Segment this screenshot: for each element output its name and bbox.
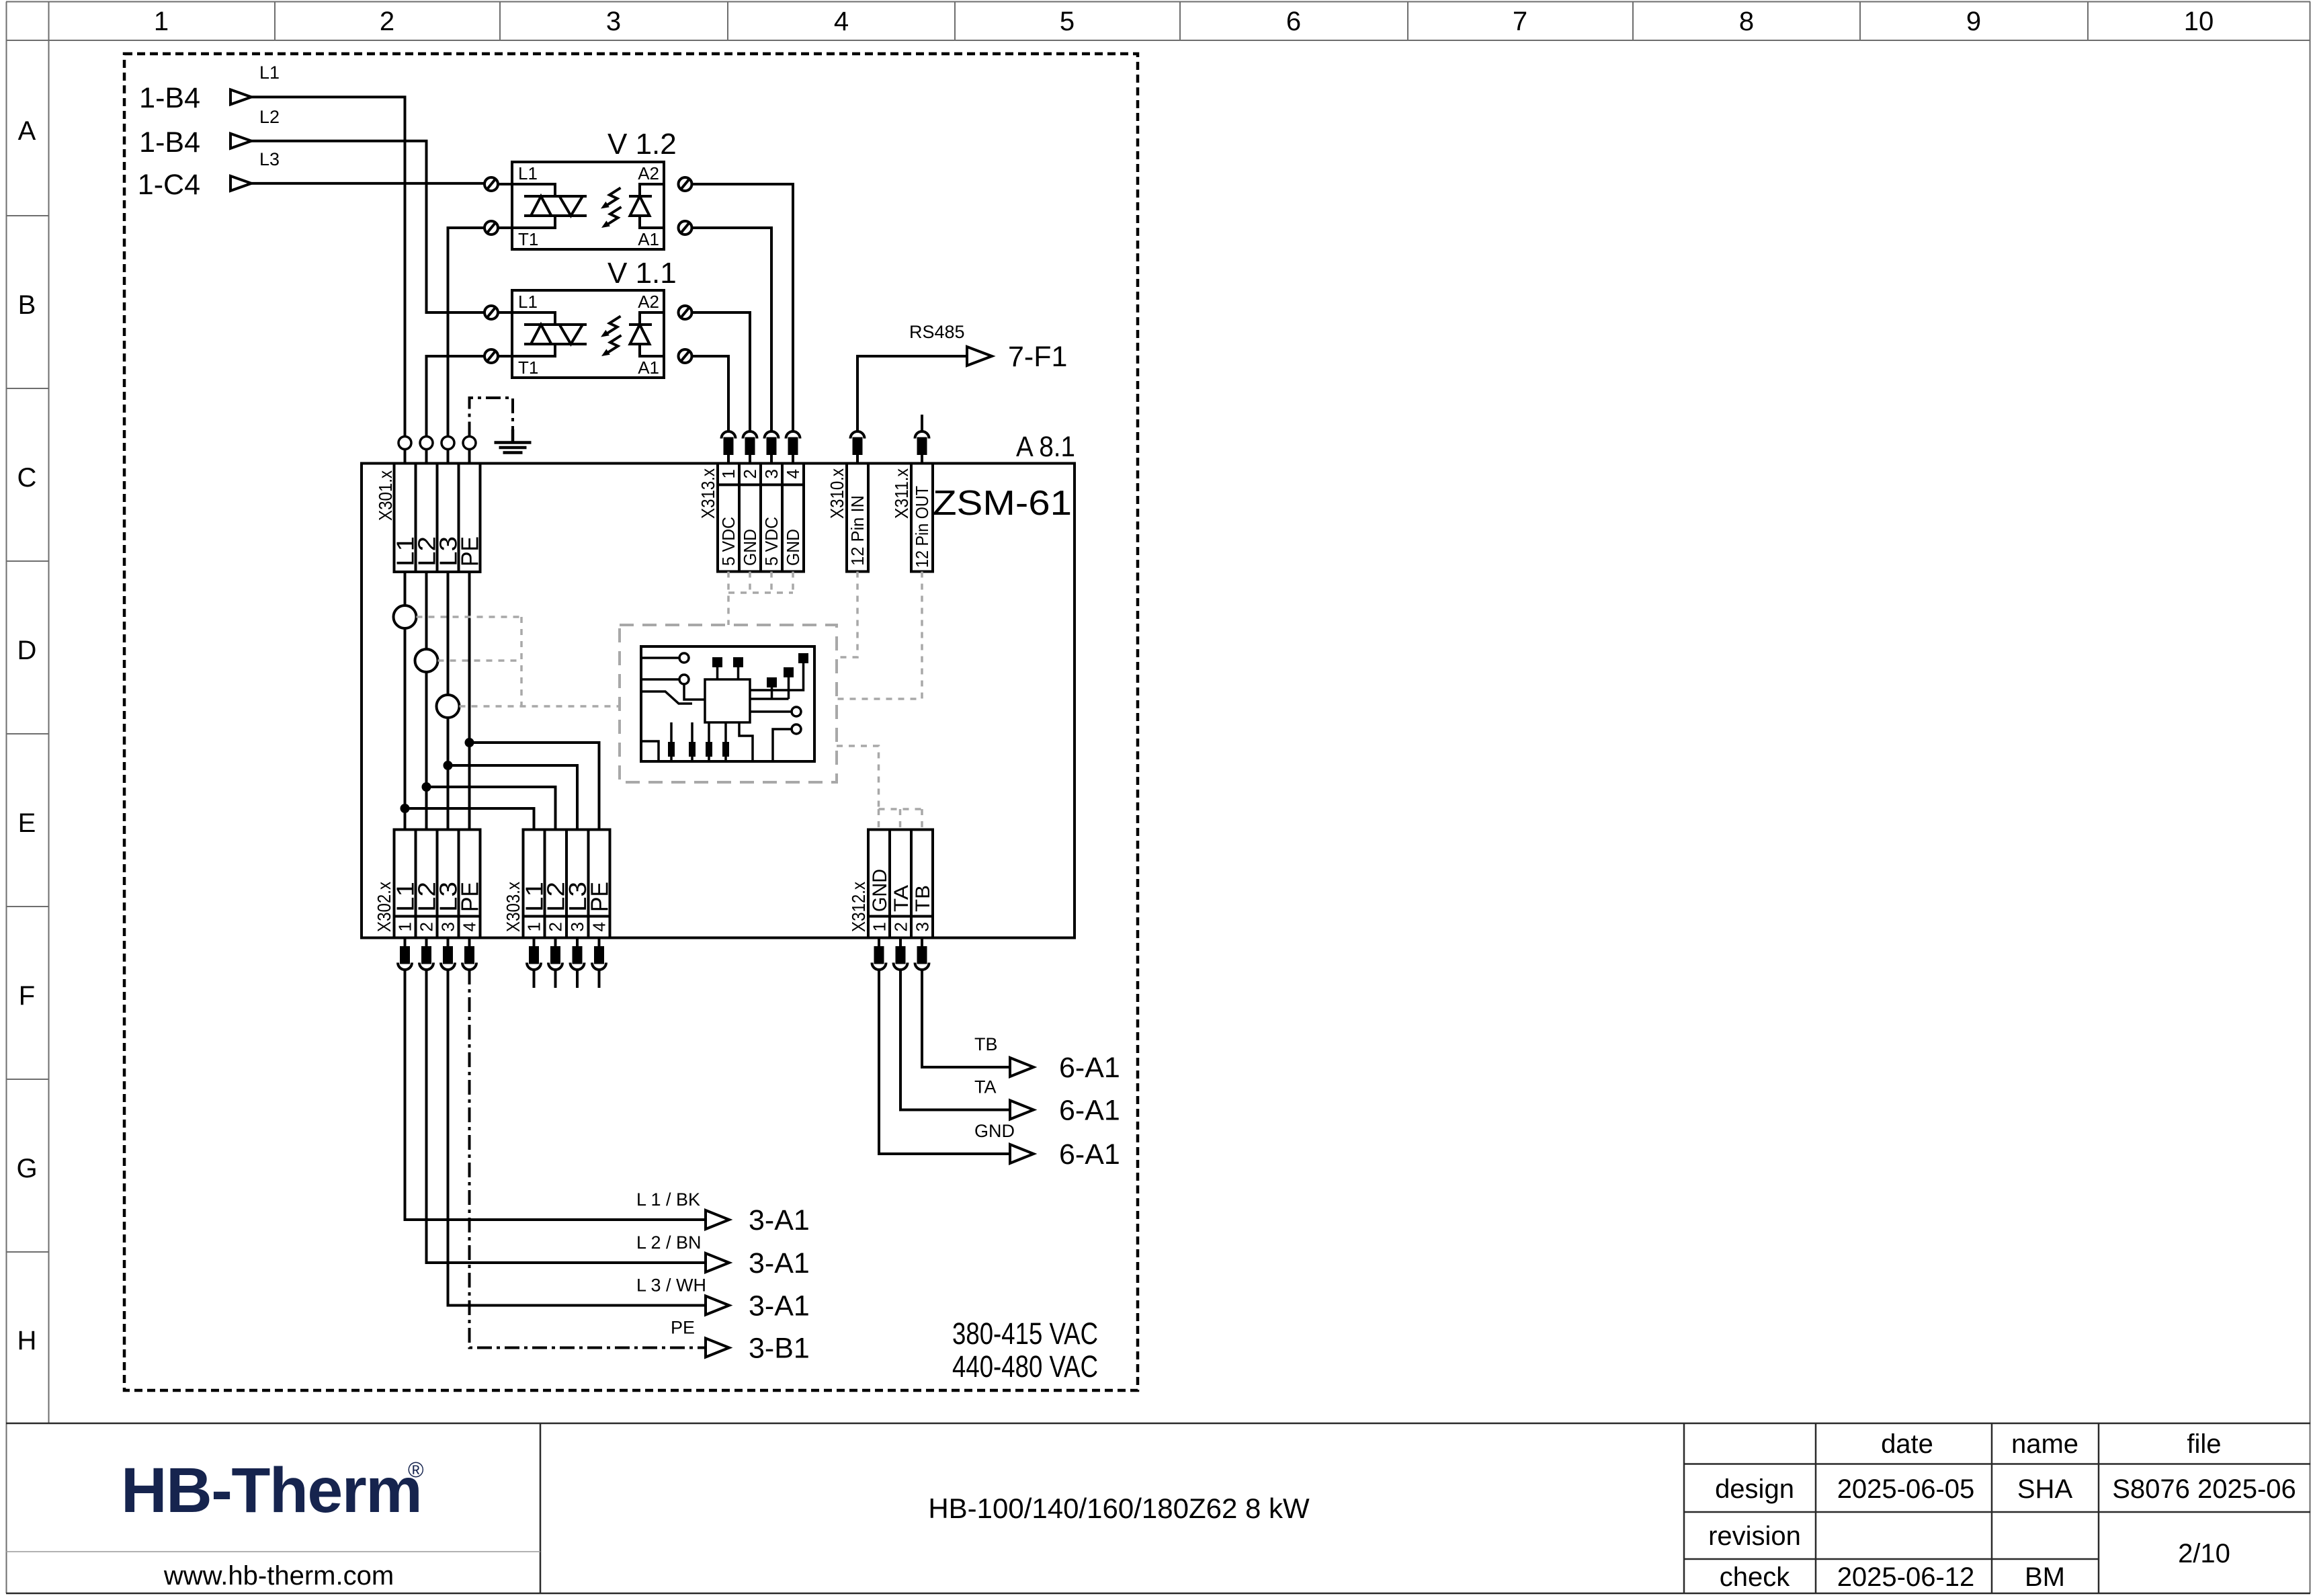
- plug-socket contact above X311 with stub wire: [915, 415, 929, 464]
- wire X312:3 TB to 6-A1: [922, 970, 1010, 1067]
- svg-text:X301.x: X301.x: [375, 470, 396, 521]
- svg-text:A1: A1: [638, 358, 659, 378]
- svg-text:6-A1: 6-A1: [1059, 1052, 1120, 1084]
- svg-text:440-480 VAC: 440-480 VAC: [952, 1349, 1098, 1384]
- svg-text:V 1.1: V 1.1: [607, 257, 677, 290]
- svg-text:4: 4: [783, 469, 803, 478]
- svg-text:1-C4: 1-C4: [138, 169, 200, 201]
- svg-text:design: design: [1715, 1474, 1794, 1504]
- arrow 3-A1 L3: [636, 1275, 810, 1322]
- wire phase L2 from 1-B4 to V1.1 L1: [251, 141, 485, 312]
- plug-socket contacts below X312 pins 1-3: [872, 938, 929, 970]
- terminal strip X301.x: [394, 464, 480, 573]
- svg-text:E: E: [18, 808, 36, 838]
- svg-text:2: 2: [417, 922, 437, 931]
- wire V1.2 A1 to X313:3: [692, 228, 771, 431]
- svg-text:GND: GND: [740, 529, 760, 566]
- svg-text:PE: PE: [586, 882, 614, 912]
- svg-text:H: H: [17, 1326, 37, 1355]
- V1.1 triac element: [498, 312, 587, 356]
- svg-text:date: date: [1881, 1429, 1933, 1459]
- svg-text:ZSM-61: ZSM-61: [933, 484, 1072, 523]
- wire phase L1 from 1-B4 to X301:1: [251, 97, 405, 463]
- wire X312:2 TA to 6-A1: [900, 970, 1010, 1110]
- svg-text:S8076 2025-06: S8076 2025-06: [2112, 1474, 2296, 1504]
- current sensor ring on L3: [437, 695, 460, 718]
- arrow 6-A1 GND: [974, 1121, 1120, 1171]
- terminal X311.x 12 Pin OUT: [891, 464, 933, 572]
- svg-text:X311.x: X311.x: [891, 468, 912, 519]
- svg-text:10: 10: [2184, 7, 2214, 36]
- svg-text:6: 6: [1286, 7, 1301, 36]
- svg-text:A2: A2: [638, 292, 659, 312]
- V1.2 photo light arrows: [601, 188, 622, 228]
- terminal strip X303.x: [523, 830, 610, 938]
- V1.2 triac element: [498, 184, 587, 228]
- schematic boundary (dashed): [124, 54, 1138, 1390]
- svg-text:A2: A2: [638, 163, 659, 183]
- arrow 6-A1 TA: [974, 1077, 1120, 1127]
- svg-text:T1: T1: [518, 358, 538, 378]
- node circles at X301 inputs: [398, 437, 476, 450]
- wire L1 inside module X301:1 to X302:1: [404, 572, 407, 830]
- svg-text:3-A1: 3-A1: [749, 1247, 810, 1279]
- internal link X310 to PCB (grey dashed): [837, 572, 857, 658]
- svg-text:T1: T1: [518, 229, 538, 249]
- source arrow 1-C4 phase L3: [138, 149, 280, 201]
- V1.2 screw terminals: [485, 177, 692, 235]
- svg-text:TA: TA: [974, 1077, 997, 1097]
- wire stub X301:4 PE: [468, 450, 471, 464]
- plug-socket contacts below X303 pins 1-4 with stub wires: [527, 938, 606, 989]
- svg-text:X312.x: X312.x: [848, 882, 869, 932]
- terminal strip X302.x: [394, 830, 480, 938]
- internal link PCB to X312 (grey dashed): [837, 746, 922, 830]
- current sensor ring on L1: [394, 605, 417, 628]
- svg-text:5 VDC: 5 VDC: [718, 517, 739, 566]
- wire X302:2 to 3-A1 L2/BN: [427, 970, 706, 1263]
- svg-text:www.hb-therm.com: www.hb-therm.com: [163, 1561, 394, 1591]
- wire V1.2 A2 to X313:4: [692, 184, 793, 431]
- svg-text:12 Pin IN: 12 Pin IN: [847, 495, 868, 566]
- svg-text:5 VDC: 5 VDC: [761, 517, 782, 566]
- svg-text:3: 3: [567, 922, 587, 931]
- svg-text:3: 3: [438, 922, 458, 931]
- supply voltage note: [952, 1316, 1098, 1384]
- svg-text:BM: BM: [2025, 1562, 2065, 1592]
- wire L2 inside module X301:2 to X302:2: [425, 572, 428, 830]
- svg-text:TB: TB: [912, 885, 934, 912]
- terminal X310.x 12 Pin IN: [827, 464, 868, 572]
- svg-text:3-A1: 3-A1: [749, 1290, 810, 1322]
- svg-text:®: ®: [408, 1458, 424, 1482]
- svg-text:RS485: RS485: [909, 322, 965, 342]
- svg-text:L1: L1: [518, 292, 538, 312]
- svg-text:F: F: [19, 981, 35, 1011]
- svg-text:GND: GND: [783, 529, 803, 566]
- HB-Therm logo: [121, 1455, 424, 1591]
- wire V1.1 A1 to X313:1: [692, 356, 728, 431]
- internal link X311 to PCB (grey dashed): [837, 572, 922, 700]
- junction L1 to X303:1: [401, 804, 534, 830]
- svg-text:L 1 / BK: L 1 / BK: [636, 1189, 700, 1210]
- svg-text:file: file: [2187, 1429, 2221, 1459]
- svg-text:L 2 / BN: L 2 / BN: [636, 1232, 702, 1253]
- svg-text:1: 1: [524, 922, 544, 931]
- svg-text:1: 1: [718, 469, 739, 478]
- wire PE inside module X301:4 to X302:4: [468, 572, 471, 830]
- svg-text:5: 5: [1060, 7, 1075, 36]
- svg-text:3: 3: [761, 469, 782, 478]
- svg-text:8: 8: [1739, 7, 1754, 36]
- svg-text:L3: L3: [259, 149, 280, 169]
- svg-text:V 1.2: V 1.2: [607, 128, 677, 161]
- svg-text:PE: PE: [671, 1318, 695, 1338]
- svg-text:G: G: [16, 1154, 37, 1183]
- TITLE BLOCK: [6, 1423, 2310, 1593]
- svg-text:3-B1: 3-B1: [749, 1333, 810, 1365]
- svg-text:1-B4: 1-B4: [139, 126, 200, 159]
- current sensor ring on L2: [415, 649, 438, 672]
- junction PE to X303:4: [465, 738, 599, 830]
- wire phase L3 from 1-C4 to V1.2 L1: [251, 182, 485, 185]
- svg-text:D: D: [17, 636, 37, 665]
- svg-text:2: 2: [891, 922, 911, 931]
- PCB circuit board graphic: [641, 646, 814, 761]
- svg-text:PE: PE: [456, 882, 484, 912]
- svg-text:name: name: [2011, 1429, 2078, 1459]
- svg-text:HB-100/140/160/180Z62 8 kW: HB-100/140/160/180Z62 8 kW: [928, 1493, 1310, 1524]
- svg-text:1: 1: [154, 7, 169, 36]
- V1.1 photo light arrows: [601, 317, 622, 357]
- svg-text:A1: A1: [638, 229, 659, 249]
- wire X302:1 to 3-A1 L1/BK: [405, 970, 706, 1220]
- wire V1.2 T1 to X301:3: [448, 228, 485, 464]
- solid-state relay V1.1: [512, 257, 677, 378]
- source arrow 1-B4 phase L1: [139, 62, 280, 114]
- svg-text:PE: PE: [456, 536, 484, 566]
- svg-text:TB: TB: [974, 1034, 998, 1054]
- internal link current sensors to PCB (grey dashed): [417, 617, 620, 706]
- plug-socket contact above X310: [851, 431, 865, 464]
- PCB assembly dashed outline: [620, 625, 837, 782]
- solid-state relay V1.2: [512, 128, 677, 249]
- svg-text:2: 2: [546, 922, 566, 931]
- svg-text:3: 3: [913, 922, 933, 931]
- arrow 3-B1 PE: [671, 1318, 810, 1365]
- plug-socket contacts above X313 pins 1-4: [722, 431, 800, 464]
- wire X312:1 GND to 6-A1: [879, 970, 1010, 1154]
- svg-text:C: C: [17, 463, 37, 493]
- arrow 3-A1 L1: [636, 1189, 810, 1236]
- PE dash-dot link to earth: [470, 398, 513, 437]
- svg-text:TA: TA: [890, 885, 913, 912]
- internal link X313 to PCB (grey dashed): [728, 572, 793, 626]
- junction L3 to X303:3: [444, 761, 578, 830]
- terminal strip X312.x: [868, 830, 933, 938]
- svg-text:HB-Therm: HB-Therm: [121, 1455, 421, 1526]
- wire L3 inside module X301:3 to X302:3: [447, 572, 450, 830]
- svg-text:2: 2: [380, 7, 394, 36]
- svg-text:4: 4: [460, 922, 480, 931]
- svg-text:2/10: 2/10: [2178, 1539, 2230, 1568]
- plug-socket contacts below X302 pins 1-4: [398, 938, 476, 970]
- ground symbol: [495, 429, 532, 453]
- svg-text:B: B: [18, 290, 36, 320]
- junction L2 to X303:2: [422, 782, 556, 830]
- arrow 6-A1 TB: [974, 1034, 1120, 1084]
- svg-text:6-A1: 6-A1: [1059, 1138, 1120, 1171]
- svg-text:L1: L1: [259, 62, 280, 83]
- electronic module A8.1 ZSM-61: [362, 431, 1075, 938]
- svg-text:2025-06-12: 2025-06-12: [1837, 1562, 1975, 1592]
- svg-text:GND: GND: [974, 1121, 1015, 1141]
- svg-text:7-F1: 7-F1: [1008, 341, 1067, 373]
- arrow 3-A1 L2: [636, 1232, 810, 1279]
- V1.2 LED element: [629, 184, 664, 228]
- svg-text:7: 7: [1513, 7, 1527, 36]
- V1.1 screw terminals: [485, 306, 692, 363]
- svg-text:4: 4: [834, 7, 849, 36]
- svg-text:X310.x: X310.x: [827, 468, 847, 519]
- svg-text:1-B4: 1-B4: [139, 82, 200, 114]
- svg-text:380-415 VAC: 380-415 VAC: [952, 1316, 1098, 1351]
- svg-text:A 8.1: A 8.1: [1016, 431, 1075, 463]
- svg-text:12 Pin OUT: 12 Pin OUT: [912, 486, 932, 568]
- svg-text:4: 4: [589, 922, 609, 931]
- svg-text:3: 3: [606, 7, 621, 36]
- terminal strip X313.x: [718, 464, 804, 572]
- wire V1.1 A2 to X313:2: [692, 312, 750, 431]
- svg-text:A: A: [18, 116, 36, 146]
- wire X302:4 PE dash-dot to 3-B1: [470, 970, 706, 1348]
- svg-text:3-A1: 3-A1: [749, 1204, 810, 1236]
- arrow to 7-F1: [909, 322, 1067, 373]
- svg-text:check: check: [1720, 1562, 1790, 1592]
- svg-text:2: 2: [740, 469, 760, 478]
- svg-text:L2: L2: [259, 107, 280, 127]
- wire X302:3 to 3-A1 L3/WH: [448, 970, 706, 1306]
- source arrow 1-B4 phase L2: [139, 107, 280, 159]
- svg-text:9: 9: [1966, 7, 1981, 36]
- wire V1.1 T1 to X301:2: [427, 356, 485, 464]
- wire RS485 from X310 to 7-F1: [857, 356, 967, 431]
- svg-text:revision: revision: [1708, 1521, 1801, 1551]
- svg-text:1: 1: [395, 922, 415, 931]
- svg-text:6-A1: 6-A1: [1059, 1095, 1120, 1127]
- svg-text:SHA: SHA: [2017, 1474, 2073, 1504]
- svg-text:L 3 / WH: L 3 / WH: [636, 1275, 706, 1296]
- V1.1 LED element: [629, 312, 664, 356]
- svg-text:X313.x: X313.x: [698, 468, 718, 519]
- svg-text:1: 1: [870, 922, 890, 931]
- svg-text:L1: L1: [518, 163, 538, 183]
- svg-text:2025-06-05: 2025-06-05: [1837, 1474, 1975, 1504]
- svg-text:GND: GND: [869, 869, 891, 912]
